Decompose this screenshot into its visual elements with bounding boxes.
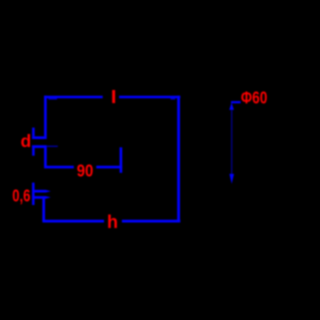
capacitor C1 bottom plate xyxy=(32,145,47,148)
capacitor C2 bottom plate with arrow end xyxy=(32,196,51,199)
wire from C1 bottom plate down and right xyxy=(44,148,74,167)
wire from C2 bottom plate down to bottom side xyxy=(42,199,45,222)
wire bottom side left segment xyxy=(42,220,104,223)
dimension tick above C1 gap xyxy=(32,128,35,137)
label I (current) xyxy=(112,90,115,103)
wire faint stub below top wire right of center xyxy=(171,98,176,100)
svg-text:Φ60: Φ60 xyxy=(241,89,268,108)
dimension tick crossing C2 plates xyxy=(32,183,35,205)
wire left side vertical xyxy=(44,96,47,137)
capacitor C1 thin plate extension xyxy=(47,145,58,147)
svg-text:d: d xyxy=(21,131,32,151)
svg-text:h: h xyxy=(107,212,118,232)
capacitor C2 top plate with arrow end xyxy=(32,190,51,193)
wire top side left segment xyxy=(44,96,103,99)
dimension riser at right end of 90 xyxy=(120,147,123,173)
svg-text:0,6: 0,6 xyxy=(12,187,31,206)
dimension arrow down xyxy=(229,174,234,184)
wire bottom side right segment xyxy=(122,220,180,223)
leader line for diameter label xyxy=(231,101,241,103)
dimension thin line xyxy=(231,110,233,175)
wire 90 dimension right segment xyxy=(96,166,122,169)
wire faint stub below top wire near corner xyxy=(48,98,57,100)
dimension tick below C1 gap xyxy=(32,148,35,156)
wire right side vertical xyxy=(177,96,180,223)
dimension arrow up xyxy=(229,103,234,110)
capacitor C1 top plate xyxy=(32,136,47,139)
wire top side right segment xyxy=(119,96,180,99)
svg-text:90: 90 xyxy=(77,161,94,180)
